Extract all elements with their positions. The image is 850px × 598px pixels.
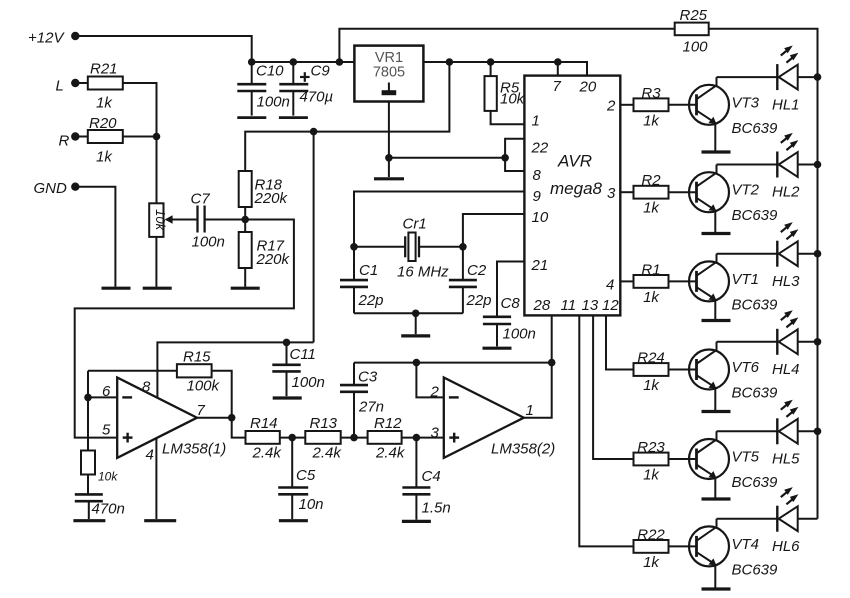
ground VR1	[374, 177, 404, 180]
svg-text:28: 28	[533, 297, 551, 314]
svg-text:C11: C11	[290, 346, 316, 363]
wire feedback line op-amp2	[354, 362, 552, 364]
wire base VT6	[669, 369, 697, 371]
wire op-amp1 output node	[197, 417, 232, 419]
svg-text:7805: 7805	[373, 65, 405, 81]
svg-text:BC639: BC639	[732, 561, 779, 578]
ground C11	[273, 396, 302, 399]
svg-text:R24: R24	[637, 350, 665, 367]
wire pin 28 to op-amp2 output	[524, 315, 552, 417]
LED HL6	[717, 487, 818, 555]
svg-text:HL2: HL2	[772, 184, 800, 201]
wire VR1 ground lead	[388, 102, 390, 178]
capacitor C11	[272, 342, 325, 396]
svg-text:100n: 100n	[292, 374, 325, 391]
resistor Rg 10k	[81, 451, 118, 484]
wire 5V sub-rail to op-amp supply	[157, 342, 313, 397]
svg-text:R15: R15	[183, 349, 211, 366]
resistor R22	[634, 526, 669, 571]
node R14-R13 junction	[288, 434, 296, 442]
wire top +12V line to R25	[339, 29, 675, 62]
svg-text:VT4: VT4	[732, 536, 760, 553]
svg-text:1k: 1k	[643, 289, 660, 306]
node +12V rail to top line	[336, 58, 344, 66]
node crystal left	[350, 243, 358, 251]
wire ground to pins 22-8	[389, 157, 505, 159]
svg-text:R12: R12	[374, 415, 402, 432]
node 5V to R5	[487, 58, 495, 66]
transistor VT2	[689, 165, 778, 233]
node bracket junction	[501, 154, 509, 162]
svg-text:HL4: HL4	[772, 361, 800, 378]
svg-text:BC639: BC639	[732, 385, 779, 402]
svg-text:10k: 10k	[98, 470, 118, 484]
svg-text:LM358(2): LM358(2)	[491, 441, 555, 458]
svg-text:20: 20	[579, 79, 597, 96]
node rail HL2	[814, 161, 822, 169]
LED HL5	[717, 400, 818, 468]
node op-amp1 output	[228, 414, 236, 422]
node pin 6 junction	[84, 394, 92, 402]
svg-text:VT5: VT5	[732, 449, 760, 466]
ground VT5	[702, 497, 731, 500]
resistor R20	[88, 115, 123, 166]
ground pot	[143, 287, 172, 290]
wire R15 feedback line	[88, 371, 232, 418]
node pin 2 branch	[413, 359, 421, 367]
resistor R18	[239, 171, 289, 207]
svg-text:C9: C9	[311, 63, 331, 80]
svg-text:470µ: 470µ	[300, 89, 334, 106]
svg-text:R1: R1	[641, 261, 660, 278]
resistor R25	[675, 7, 709, 56]
resistor R14	[246, 415, 283, 462]
node C10 top	[248, 58, 256, 66]
node crystal right	[459, 243, 467, 251]
ground Cg	[73, 519, 105, 522]
capacitor C9	[279, 62, 333, 116]
svg-text:10n: 10n	[299, 496, 324, 513]
wire bias to op-amp pin 5	[75, 220, 294, 438]
svg-text:mega8: mega8	[550, 179, 603, 198]
transistor VT6	[689, 342, 778, 410]
op-amp U2.1 LM358(1)	[117, 378, 226, 458]
resistor R24	[634, 350, 669, 395]
svg-text:11: 11	[561, 297, 577, 314]
svg-text:220k: 220k	[254, 190, 289, 207]
ground op-amp pin 4	[144, 519, 176, 522]
wire base VT5	[669, 458, 697, 460]
svg-text:7: 7	[197, 402, 206, 419]
ground VT6	[702, 410, 731, 413]
svg-text:10: 10	[532, 209, 549, 226]
svg-text:1.5n: 1.5n	[422, 500, 451, 517]
node pin 3 junction	[413, 434, 421, 442]
resistor R3	[634, 85, 669, 130]
svg-text:C8: C8	[501, 295, 521, 312]
ground VT2	[702, 232, 731, 235]
svg-text:100k: 100k	[187, 378, 221, 395]
ground GND terminal	[102, 287, 131, 290]
capacitor C7	[191, 191, 225, 251]
ground C8	[483, 347, 512, 350]
potentiometer 10k	[149, 203, 197, 237]
svg-text:22: 22	[531, 140, 549, 157]
svg-text:C3: C3	[358, 369, 378, 386]
svg-text:BC639: BC639	[732, 120, 779, 137]
regulator VR1 7805	[354, 46, 423, 102]
LED HL1	[717, 46, 818, 114]
wire op-amp 1 ground pin 4	[155, 438, 157, 519]
svg-text:1k: 1k	[643, 554, 660, 571]
transistor VT5	[689, 431, 778, 497]
mcu U1 AVR mega8	[524, 76, 620, 316]
svg-text:6: 6	[102, 383, 111, 400]
svg-text:VT3: VT3	[732, 94, 760, 111]
LED HL2	[717, 133, 818, 201]
svg-text:1k: 1k	[643, 200, 660, 217]
ground VT4	[702, 587, 731, 590]
svg-text:8: 8	[142, 379, 151, 396]
wire base VT4	[669, 545, 697, 547]
node bias rail branch	[310, 128, 318, 136]
resistor R1	[634, 261, 669, 306]
resistor R21	[88, 61, 123, 112]
svg-text:100n: 100n	[192, 234, 225, 251]
wire 5V to divider	[245, 62, 449, 171]
node rail HL3	[814, 250, 822, 258]
svg-text:4: 4	[606, 277, 614, 294]
capacitor C1	[340, 247, 384, 313]
svg-text:1: 1	[526, 402, 534, 419]
node crystal ground junction	[412, 310, 420, 318]
wire pin 9 to crystal	[354, 192, 524, 247]
wire pin 7 stub	[557, 62, 559, 76]
svg-text:2: 2	[606, 98, 616, 115]
capacitor C8	[483, 262, 536, 347]
wire pin stub to R3	[620, 104, 633, 106]
svg-text:R2: R2	[641, 172, 661, 189]
svg-text:GND: GND	[34, 180, 68, 197]
node rail HL1	[814, 73, 822, 81]
svg-text:3: 3	[431, 425, 440, 442]
resistor R5	[485, 62, 526, 124]
node VR1 ground junction	[385, 154, 393, 162]
wire R25 to right rail and rail down	[709, 29, 818, 519]
wire pin 6	[88, 396, 117, 398]
node GND terminal	[34, 180, 80, 197]
svg-text:16 MHz: 16 MHz	[397, 264, 449, 281]
svg-text:7: 7	[553, 78, 562, 95]
svg-text:2.4k: 2.4k	[252, 445, 283, 462]
wire R input	[75, 136, 156, 138]
svg-text:2.4k: 2.4k	[312, 445, 343, 462]
svg-text:C7: C7	[191, 191, 211, 208]
svg-text:8: 8	[533, 167, 542, 184]
wire pin stub to R1	[620, 280, 633, 282]
svg-text:1k: 1k	[643, 112, 660, 129]
resistor R12	[368, 415, 406, 462]
wire +12V input rail	[252, 61, 355, 63]
wire +12V to rail	[75, 36, 251, 62]
svg-text:LM358(1): LM358(1)	[162, 441, 226, 458]
wire crystal caps common	[354, 312, 463, 314]
svg-text:VT2: VT2	[732, 182, 760, 199]
wire pin stub to R2	[620, 191, 633, 193]
wire base VT3	[669, 104, 697, 106]
transistor VT4	[689, 519, 778, 588]
svg-text:1k: 1k	[96, 95, 113, 112]
svg-text:5: 5	[102, 422, 111, 439]
resistor R17	[239, 232, 291, 268]
svg-text:1k: 1k	[643, 467, 660, 484]
svg-text:L: L	[56, 78, 64, 95]
svg-text:470n: 470n	[92, 501, 125, 518]
resistor R23	[634, 439, 669, 484]
transistor VT3	[689, 77, 778, 151]
svg-text:10k: 10k	[153, 209, 168, 231]
resistor R2	[634, 172, 669, 217]
svg-text:C10: C10	[256, 63, 284, 80]
svg-text:R: R	[59, 133, 70, 150]
wire pin 12 to R24	[606, 315, 634, 369]
svg-text:R13: R13	[310, 415, 338, 432]
node R terminal	[59, 132, 80, 149]
wire pin 10 to crystal	[463, 214, 525, 247]
wire pot bottom to ground	[155, 237, 157, 287]
wire C7 to divider junction	[205, 219, 246, 221]
svg-text:R14: R14	[250, 415, 278, 432]
wire R18 to R17	[244, 207, 246, 232]
wire bias branch down	[313, 132, 315, 343]
node C11 tap	[283, 339, 291, 347]
svg-text:2: 2	[430, 384, 440, 401]
svg-text:10k: 10k	[500, 91, 526, 108]
LED HL4	[717, 310, 818, 378]
svg-text:C4: C4	[422, 468, 441, 485]
wire to crystal ground	[415, 313, 417, 334]
capacitor C4	[402, 438, 450, 520]
ground C5	[279, 519, 308, 522]
capacitor C9 polarity plus	[300, 72, 310, 82]
svg-text:27n: 27n	[358, 399, 384, 416]
svg-text:2.4k: 2.4k	[375, 445, 406, 462]
svg-text:1k: 1k	[643, 377, 660, 394]
ground VT1	[702, 319, 731, 322]
node 5V to pin 7	[554, 58, 562, 66]
svg-text:13: 13	[582, 297, 599, 314]
svg-text:R23: R23	[637, 439, 665, 456]
svg-text:BC639: BC639	[732, 207, 779, 224]
svg-text:22p: 22p	[358, 292, 384, 309]
LED HL3	[717, 222, 818, 290]
node L terminal	[56, 78, 80, 95]
ground crystal	[401, 334, 430, 337]
ground R17	[231, 287, 260, 290]
svg-text:100: 100	[683, 39, 709, 56]
svg-text:100n: 100n	[503, 326, 536, 343]
capacitor C5	[278, 438, 323, 519]
node divider mid	[241, 216, 249, 224]
capacitor C2	[449, 247, 492, 313]
svg-text:22p: 22p	[466, 292, 492, 309]
svg-text:R20: R20	[89, 115, 117, 132]
svg-text:1: 1	[532, 113, 540, 130]
node pin28 junction	[548, 359, 556, 367]
wire pin 2 op-amp2	[416, 363, 443, 398]
svg-text:12: 12	[602, 297, 619, 314]
transistor VT1	[689, 254, 778, 319]
node C9 top	[290, 58, 298, 66]
wire R17 to ground	[244, 268, 246, 287]
svg-text:1k: 1k	[96, 149, 113, 166]
svg-text:VT6: VT6	[732, 359, 760, 376]
node rail HL4	[814, 338, 822, 346]
wire filter chain	[232, 418, 444, 438]
svg-text:BC639: BC639	[732, 474, 779, 491]
svg-text:HL6: HL6	[772, 538, 800, 555]
svg-text:R3: R3	[641, 85, 661, 102]
crystal Cr1	[354, 216, 463, 281]
svg-text:C2: C2	[467, 262, 487, 279]
node 5V to divider	[446, 58, 454, 66]
svg-text:R21: R21	[90, 61, 118, 78]
svg-text:R22: R22	[637, 526, 665, 543]
svg-text:3: 3	[607, 185, 616, 202]
svg-text:21: 21	[531, 257, 549, 274]
wire GND input	[75, 187, 115, 287]
svg-text:C5: C5	[296, 467, 316, 484]
svg-text:BC639: BC639	[732, 296, 779, 313]
resistor R13	[305, 415, 342, 462]
capacitor Cg 470n	[75, 475, 125, 520]
wire L input	[75, 83, 156, 203]
ground C10	[237, 116, 266, 119]
svg-text:100n: 100n	[257, 94, 290, 111]
node R13-R12 junction	[350, 434, 358, 442]
svg-text:C1: C1	[359, 262, 378, 279]
svg-text:4: 4	[146, 447, 154, 464]
capacitor C3	[340, 363, 384, 438]
svg-text:HL1: HL1	[772, 96, 800, 113]
wire pin 13 to R23	[593, 315, 633, 459]
svg-text:AVR: AVR	[557, 152, 592, 171]
svg-text:HL3: HL3	[772, 273, 800, 290]
wire inverting input branch	[87, 371, 89, 451]
ground C4	[402, 520, 431, 523]
wire base VT2	[669, 191, 697, 193]
wire base VT1	[669, 280, 697, 282]
ground VT3	[702, 150, 731, 153]
node +12V terminal	[28, 30, 80, 47]
wire pin 22-8 bracket	[505, 139, 524, 171]
op-amp U2.2 LM358(2)	[444, 378, 555, 458]
wire pin 11 to R22	[579, 315, 633, 546]
capacitor C10	[237, 62, 290, 116]
wire VR1 output rail 5V	[423, 62, 587, 76]
node mix junction	[153, 133, 161, 141]
ground C9	[279, 116, 308, 119]
svg-text:Cr1: Cr1	[403, 216, 427, 233]
svg-text:220k: 220k	[256, 251, 291, 268]
svg-text:+12V: +12V	[28, 30, 65, 47]
node rail HL5	[814, 428, 822, 436]
svg-text:HL5: HL5	[772, 451, 800, 468]
svg-text:9: 9	[533, 188, 542, 205]
resistor R15	[177, 349, 221, 395]
svg-text:R25: R25	[680, 7, 708, 24]
svg-text:VT1: VT1	[732, 271, 760, 288]
